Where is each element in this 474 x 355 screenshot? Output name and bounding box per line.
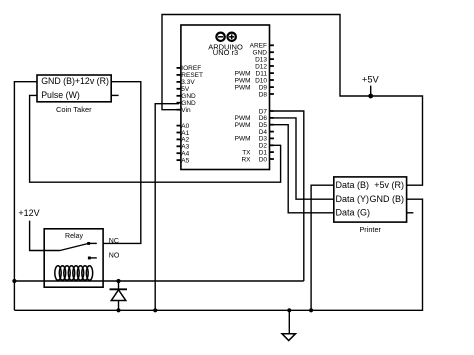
svg-text:NO: NO: [109, 253, 120, 260]
svg-text:IOREF: IOREF: [181, 65, 201, 72]
relay K1 box: [44, 229, 103, 287]
wire Arduino GND down to ground rail: [155, 104, 179, 311]
svg-text:RESET: RESET: [181, 72, 203, 79]
wire D5 to printer Data (G): [274, 125, 334, 213]
svg-text:PWM: PWM: [235, 122, 251, 129]
svg-text:GND (B): GND (B): [370, 194, 405, 204]
relay NC contact: [89, 242, 97, 244]
svg-text:+5v (R): +5v (R): [374, 180, 404, 190]
svg-text:Relay: Relay: [65, 233, 83, 240]
wire printer Data (B) down to ground rail: [311, 185, 334, 310]
Arduino left pin labels: [181, 65, 203, 164]
svg-text:+5V: +5V: [362, 75, 380, 85]
Arduino right pin stubs: [270, 45, 274, 159]
ground symbol: [282, 308, 296, 340]
wire D6 to printer Data (Y): [274, 118, 334, 199]
svg-text:Coin Taker: Coin Taker: [56, 105, 92, 114]
inductor L1 relay coil: [55, 266, 93, 281]
svg-text:Pulse (W): Pulse (W): [41, 90, 80, 100]
svg-text:Data (G): Data (G): [336, 208, 371, 218]
Arduino left pin stubs: [177, 68, 181, 160]
svg-text:+12V: +12V: [18, 208, 39, 218]
svg-text:5V: 5V: [181, 86, 190, 93]
svg-text:PWM: PWM: [235, 77, 251, 84]
Arduino right pin labels: [235, 43, 268, 164]
svg-text:GND: GND: [181, 100, 196, 107]
diode D1 flyback: [110, 279, 128, 313]
svg-text:Vin: Vin: [181, 107, 191, 114]
printer box: [334, 177, 407, 222]
svg-text:RX: RX: [241, 156, 251, 163]
wire coin GND left down to ground rail: [14, 82, 37, 311]
Arduino logo: [216, 33, 235, 41]
relay NO contact: [89, 257, 96, 259]
svg-text:D8: D8: [259, 91, 268, 98]
node junction coil-left / gnd: [12, 279, 16, 283]
svg-text:D12: D12: [255, 63, 267, 70]
wire coin +12v right to relay NC: [103, 82, 141, 244]
relay switch blade: [60, 243, 89, 250]
Coin Taker box: [37, 75, 111, 102]
IC U1 Arduino UNO r3 box: [181, 25, 270, 170]
svg-text:Data (Y): Data (Y): [336, 194, 370, 204]
Coin Taker right pin stub row2: [111, 94, 118, 96]
wire coil rail: [14, 280, 303, 282]
wire ground bottom rail: [14, 199, 422, 310]
svg-text:PWM: PWM: [235, 84, 251, 91]
svg-text:D0: D0: [259, 156, 268, 163]
svg-text:A5: A5: [181, 157, 189, 164]
svg-text:GND (B)+12v (R): GND (B)+12v (R): [41, 76, 109, 86]
svg-text:Data (B): Data (B): [336, 180, 370, 190]
svg-text:PWM: PWM: [235, 136, 251, 143]
wire Pulse to D2: [30, 95, 281, 182]
svg-text:UNO r3: UNO r3: [213, 48, 238, 57]
wire +12V to relay common: [30, 221, 60, 251]
svg-text:D10: D10: [255, 77, 267, 84]
svg-text:NC: NC: [109, 238, 119, 245]
node junction gnd rail: [153, 308, 157, 312]
node +5V label: [362, 75, 380, 99]
wire D7 down to coil rail: [274, 111, 304, 281]
printer right pin stub row3: [407, 212, 414, 214]
node junction: [309, 308, 313, 312]
svg-text:Printer: Printer: [359, 225, 381, 234]
wire +5V net: Arduino Vin to top rail to printer +5v (R): [162, 15, 423, 186]
